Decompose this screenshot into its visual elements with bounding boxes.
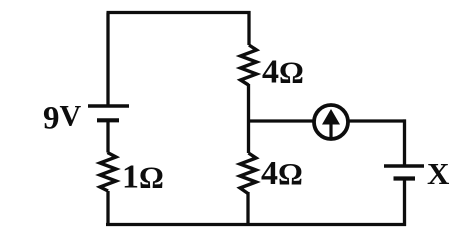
- wire bottom rail: [106, 223, 406, 226]
- wire top horizontal rail: [107, 11, 251, 14]
- wire middle node to current source: [249, 119, 314, 122]
- battery X short plate: [394, 176, 416, 180]
- svg-text:4Ω: 4Ω: [262, 54, 304, 91]
- svg-text:1Ω: 1Ω: [122, 159, 164, 196]
- resistor R2 4ohm (top middle): [241, 45, 257, 85]
- wire middle branch top stub: [247, 11, 250, 45]
- current source arrow (up): [322, 109, 340, 138]
- svg-text:X: X: [427, 156, 450, 191]
- node middle junction: [249, 119, 251, 122]
- wire left vertical (battery to top-left corner): [106, 13, 109, 108]
- current source I1 (circle): [314, 105, 348, 139]
- battery V1 9V short plate: [97, 118, 119, 122]
- wire X to bottom rail: [403, 179, 406, 227]
- battery X long plate: [384, 164, 424, 168]
- wire bottom 4ohm to bottom rail: [246, 192, 249, 226]
- wire battery to 1ohm resistor: [106, 120, 109, 152]
- battery V1 9V long plate: [88, 104, 129, 107]
- resistor R1 1ohm: [100, 153, 116, 192]
- wire middle branch between resistors: [247, 84, 250, 153]
- wire right vertical (to element X): [403, 119, 406, 166]
- wire 1ohm to bottom rail: [106, 191, 109, 226]
- svg-text:9V: 9V: [43, 100, 82, 137]
- resistor R3 4ohm (bottom middle): [240, 153, 256, 194]
- svg-text:4Ω: 4Ω: [261, 155, 303, 192]
- wire current source to right branch: [349, 119, 407, 122]
